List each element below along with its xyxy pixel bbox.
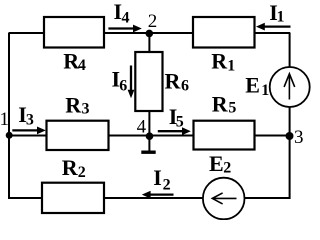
svg-text:R: R — [165, 69, 182, 94]
source E1 arrow — [284, 74, 295, 100]
svg-text:3: 3 — [82, 101, 90, 118]
resistor R4 — [44, 17, 104, 48]
svg-text:I: I — [153, 165, 162, 190]
svg-text:2: 2 — [148, 11, 158, 32]
source E2 — [203, 178, 245, 220]
wire bottom — [9, 197, 290, 199]
current arrow I4 — [108, 25, 141, 33]
svg-text:5: 5 — [176, 114, 184, 131]
svg-text:R: R — [65, 92, 82, 117]
current arrow I1 — [256, 23, 291, 31]
resistor R2 — [42, 183, 104, 213]
svg-text:3: 3 — [294, 127, 304, 148]
node 4 — [146, 132, 154, 140]
svg-text:E: E — [245, 73, 260, 98]
node 2 — [146, 30, 154, 38]
wire center branch node2 to node4 — [148, 33, 150, 136]
svg-text:R: R — [211, 49, 228, 74]
svg-text:4: 4 — [137, 116, 147, 137]
resistor R3 — [47, 121, 109, 150]
wire top — [9, 32, 290, 34]
svg-text:1: 1 — [227, 58, 235, 75]
svg-text:6: 6 — [181, 77, 189, 94]
current arrow I3 — [12, 127, 46, 135]
resistor R1 — [193, 17, 255, 48]
svg-text:2: 2 — [163, 177, 171, 194]
current arrow I5 — [158, 127, 191, 135]
svg-text:R: R — [212, 92, 229, 117]
svg-text:E: E — [209, 151, 224, 176]
ground — [148, 136, 150, 152]
svg-text:6: 6 — [119, 77, 127, 94]
svg-text:2: 2 — [78, 164, 86, 181]
svg-text:3: 3 — [26, 111, 34, 128]
svg-text:R: R — [62, 155, 79, 180]
svg-text:4: 4 — [78, 57, 86, 74]
wire left vertical — [8, 33, 10, 200]
source E2 arrow — [212, 193, 236, 204]
svg-text:1: 1 — [261, 82, 269, 99]
svg-text:4: 4 — [122, 10, 130, 27]
resistor R6 — [135, 52, 162, 111]
source E1 — [270, 67, 310, 107]
svg-text:1: 1 — [277, 9, 285, 26]
current arrow I2 — [142, 191, 174, 199]
wire middle — [9, 135, 290, 137]
svg-text:1: 1 — [0, 109, 9, 130]
node 3 — [286, 132, 294, 140]
current arrow I6 — [128, 66, 135, 99]
svg-text:2: 2 — [223, 160, 231, 177]
wire right vertical — [289, 33, 291, 200]
node 1 — [6, 132, 13, 139]
svg-text:5: 5 — [228, 100, 236, 117]
resistor R5 — [194, 121, 255, 150]
